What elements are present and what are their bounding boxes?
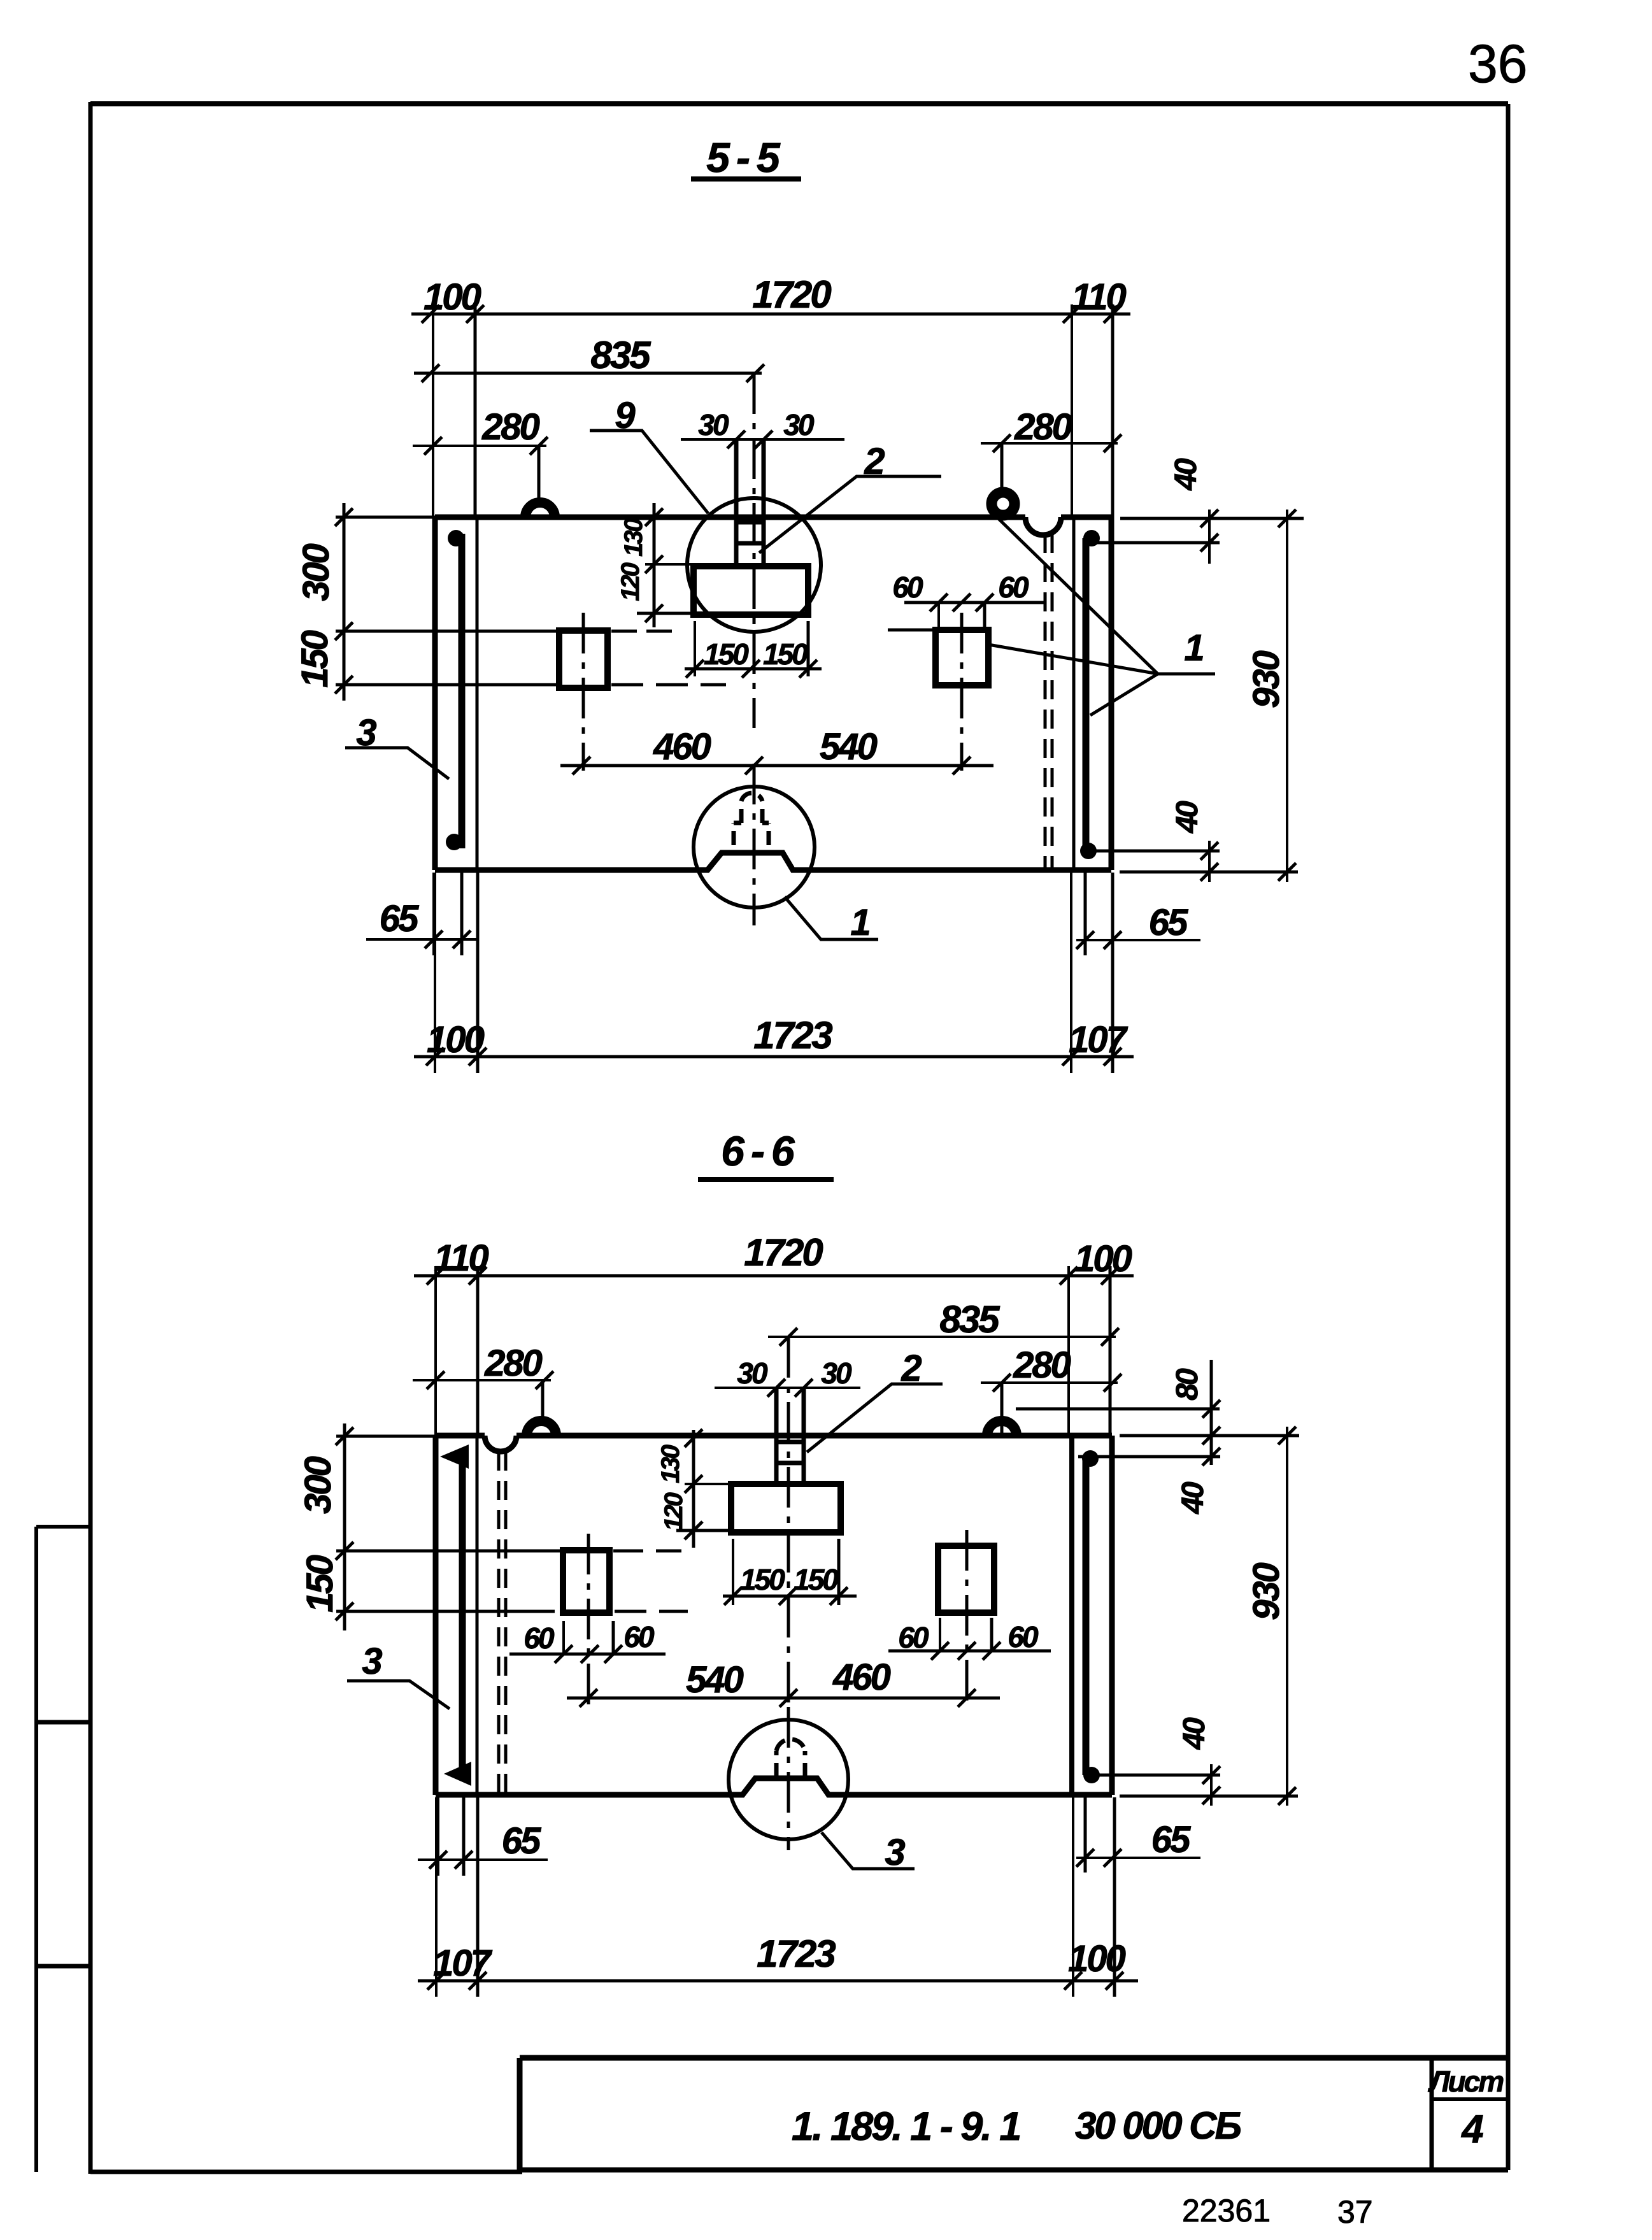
svg-text:100: 100 (1074, 1238, 1132, 1280)
svg-text:60: 60 (623, 1620, 655, 1653)
svg-text:107: 107 (1069, 1019, 1129, 1060)
svg-text:120: 120 (660, 1492, 688, 1530)
svg-text:60: 60 (998, 571, 1029, 604)
svg-text:5-5: 5-5 (706, 134, 786, 181)
svg-text:Лист: Лист (1428, 2065, 1503, 2098)
svg-text:150: 150 (704, 638, 749, 671)
svg-text:65: 65 (502, 1820, 541, 1862)
svg-text:40: 40 (1176, 1481, 1210, 1515)
svg-text:37: 37 (1337, 2194, 1373, 2230)
svg-text:1723: 1723 (753, 1014, 832, 1057)
svg-text:280: 280 (484, 1343, 543, 1384)
svg-text:3: 3 (362, 1641, 382, 1682)
svg-text:6-6: 6-6 (721, 1127, 801, 1174)
svg-text:40: 40 (1169, 458, 1203, 491)
svg-text:150: 150 (763, 638, 808, 671)
svg-text:30: 30 (783, 408, 815, 441)
svg-text:1: 1 (1184, 627, 1203, 669)
svg-text:100: 100 (424, 276, 481, 318)
svg-text:280: 280 (1014, 406, 1072, 448)
svg-text:40: 40 (1178, 1717, 1211, 1750)
svg-text:1723: 1723 (757, 1932, 836, 1975)
svg-text:1: 1 (850, 902, 869, 943)
svg-text:30: 30 (698, 408, 729, 441)
svg-text:120: 120 (616, 562, 644, 601)
svg-text:65: 65 (1149, 902, 1188, 943)
svg-text:110: 110 (1071, 276, 1126, 318)
svg-text:150: 150 (294, 630, 336, 688)
svg-text:100: 100 (1068, 1938, 1126, 1980)
svg-text:60: 60 (1008, 1620, 1039, 1653)
svg-text:30 000 СБ: 30 000 СБ (1075, 2104, 1241, 2147)
svg-text:40: 40 (1171, 801, 1204, 834)
svg-text:130: 130 (657, 1445, 685, 1483)
svg-text:60: 60 (523, 1622, 555, 1655)
svg-text:150: 150 (299, 1555, 341, 1613)
svg-text:930: 930 (1246, 650, 1287, 708)
svg-text:150: 150 (740, 1563, 785, 1596)
svg-text:300: 300 (296, 543, 337, 601)
svg-text:460: 460 (653, 726, 711, 767)
svg-text:107: 107 (433, 1943, 493, 1984)
svg-text:4: 4 (1460, 2108, 1483, 2151)
svg-text:280: 280 (481, 406, 540, 448)
svg-text:540: 540 (686, 1659, 744, 1701)
svg-text:835: 835 (590, 334, 652, 376)
svg-text:60: 60 (898, 1621, 929, 1654)
svg-text:30: 30 (737, 1357, 768, 1390)
svg-text:1. 189. 1 - 9. 1: 1. 189. 1 - 9. 1 (792, 2104, 1020, 2149)
svg-text:540: 540 (820, 726, 878, 767)
svg-text:30: 30 (821, 1357, 852, 1390)
svg-text:65: 65 (1151, 1819, 1191, 1860)
svg-text:300: 300 (297, 1456, 339, 1514)
svg-text:36: 36 (1468, 34, 1527, 94)
svg-text:460: 460 (832, 1657, 891, 1698)
svg-text:1720: 1720 (752, 273, 831, 316)
svg-text:100: 100 (427, 1019, 485, 1060)
svg-text:130: 130 (620, 518, 648, 556)
svg-text:80: 80 (1171, 1368, 1204, 1401)
svg-text:110: 110 (434, 1238, 488, 1279)
svg-text:65: 65 (380, 898, 419, 939)
svg-text:3: 3 (885, 1832, 905, 1873)
svg-text:835: 835 (939, 1298, 1000, 1341)
svg-text:1720: 1720 (744, 1231, 823, 1274)
svg-text:930: 930 (1246, 1562, 1287, 1620)
svg-text:60: 60 (892, 571, 923, 604)
svg-text:280: 280 (1013, 1345, 1071, 1386)
svg-text:150: 150 (794, 1563, 839, 1596)
svg-text:22361: 22361 (1182, 2193, 1271, 2229)
